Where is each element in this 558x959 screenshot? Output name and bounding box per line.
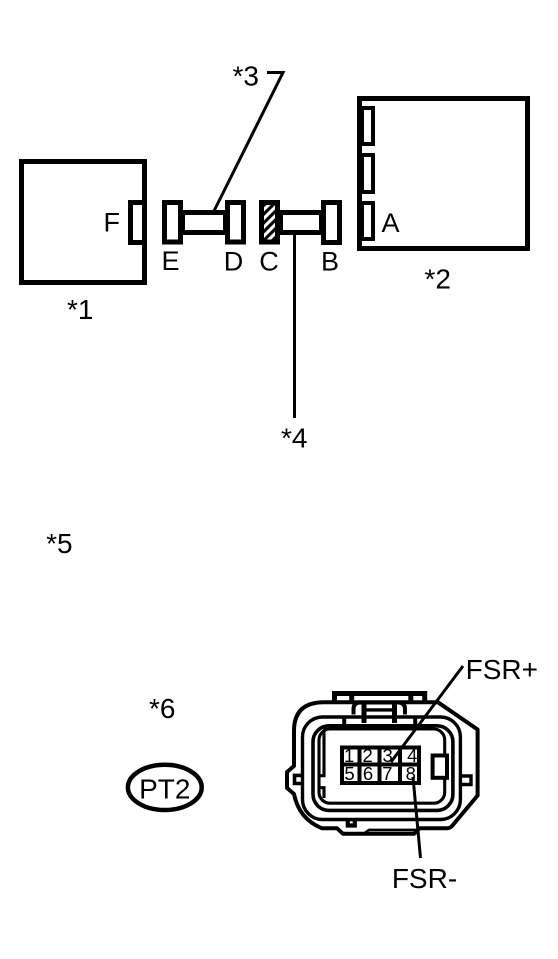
connector E: [165, 203, 181, 243]
wire bar C-B: [281, 213, 322, 233]
housing vertical left: [342, 717, 346, 727]
connector C (hatched): [262, 203, 278, 243]
svg-text:FSR+: FSR+: [466, 654, 538, 685]
leader line FSR+: [391, 666, 463, 762]
connector shell inner outline: [303, 717, 461, 820]
cavity outer wall: [313, 726, 453, 811]
svg-text:D: D: [224, 247, 244, 277]
svg-text:7: 7: [382, 763, 392, 784]
svg-text:*6: *6: [149, 693, 175, 724]
pin area wall left line with notch: [319, 729, 327, 776]
svg-text:E: E: [161, 246, 179, 276]
svg-text:6: 6: [363, 763, 373, 784]
leader line *4: [293, 234, 296, 418]
bottom notch on inner shell line: [348, 819, 355, 826]
pin block verticals: [358, 747, 362, 783]
connector B: [324, 203, 340, 243]
svg-text:5: 5: [344, 763, 354, 784]
svg-text:*5: *5: [46, 528, 72, 559]
top tab bar: [335, 694, 425, 704]
cavity inner wall: [319, 729, 445, 803]
leader line FSR-: [413, 777, 421, 858]
box *2: [360, 99, 528, 249]
svg-text:FSR-: FSR-: [392, 863, 457, 894]
connector shell outer outline: [287, 702, 478, 834]
lock button outline: [354, 703, 406, 715]
leader line *3: [214, 73, 283, 212]
connector PT2 oval: [128, 765, 202, 810]
connector D: [228, 203, 244, 243]
bottom step inner line: [364, 830, 417, 834]
pin block horizontal: [342, 763, 419, 767]
svg-text:*2: *2: [424, 264, 450, 295]
left bump on inner shell: [295, 775, 303, 783]
svg-text:PT2: PT2: [139, 774, 190, 805]
socket slot 2 on box *2: [362, 155, 373, 192]
right bump on inner shell: [460, 776, 471, 785]
lock button inner left line: [362, 704, 367, 723]
svg-text:A: A: [381, 208, 399, 238]
lock button inner right line: [392, 704, 397, 723]
svg-text:*4: *4: [281, 423, 307, 454]
svg-text:*1: *1: [67, 294, 93, 325]
svg-text:F: F: [103, 208, 120, 238]
connector F socket on box *1: [131, 203, 145, 243]
housing vertical right: [413, 717, 417, 727]
svg-text:C: C: [259, 247, 279, 277]
box *1: [22, 162, 145, 283]
svg-text:B: B: [321, 247, 339, 277]
pin block outer: [342, 748, 419, 784]
svg-text:*3: *3: [232, 61, 258, 92]
socket slot 1 on box *2: [362, 108, 373, 144]
socket slot 3 on box *2 (A): [362, 203, 373, 239]
wire bar E-D: [183, 213, 226, 233]
lock button inner horizontal: [364, 708, 395, 711]
top tab step right: [408, 695, 413, 702]
right key rect: [433, 756, 447, 778]
top tab step left: [349, 695, 354, 702]
